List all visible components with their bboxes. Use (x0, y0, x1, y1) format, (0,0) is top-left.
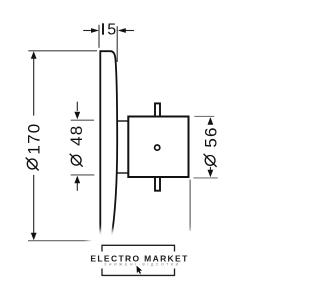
logo frame left edge lower (101, 269, 103, 277)
dimension D56 bottom extension line (194, 177, 218, 179)
dimension D48 bottom arrowhead (74, 176, 80, 184)
svg-text:ЗНИЖЕНІ-ВІДСОТКИ: ЗНИЖЕНІ-ВІДСОТКИ (104, 263, 181, 267)
logo white halo mask (88, 230, 196, 288)
valve body top tab (155, 103, 160, 116)
sleeve top line (117, 120, 129, 122)
sleeve bottom line (117, 172, 129, 174)
dimension 15 left arrowhead (91, 28, 99, 33)
dimension 15 value label digit 1 (102, 23, 104, 34)
svg-text:56: 56 (202, 126, 221, 147)
dimension D48 top arrowhead (74, 112, 80, 120)
valve body U1 (128, 117, 188, 178)
dimension D170 top extension line (28, 50, 97, 52)
dimension D48 bottom extension line (71, 174, 95, 176)
valve body center screw hole (155, 145, 160, 150)
svg-text:5: 5 (107, 22, 116, 39)
dimension D170 line upper segment (33, 57, 35, 116)
dimension D56 bottom arrowhead (208, 170, 214, 178)
dimension D170 top arrowhead (31, 51, 37, 59)
logo frame bottom edge (102, 274, 175, 276)
mouse cursor pointer (137, 266, 143, 274)
escutcheon plate outline (side view) (100, 51, 117, 239)
diameter symbol of D48 (71, 155, 81, 165)
dimension D170 line lower segment (33, 175, 35, 235)
dimension D170 bottom extension line (28, 240, 92, 242)
svg-text:170: 170 (25, 123, 44, 155)
extension line below body right edge (189, 180, 191, 232)
dimension D56 top arrowhead (208, 117, 214, 125)
logo frame top edge (102, 244, 175, 246)
logo frame right edge lower (174, 269, 176, 277)
dimension 15 left extension line (98, 25, 100, 48)
dimension D170 bottom arrowhead (31, 233, 37, 241)
dimension D48 top tail (76, 102, 78, 111)
svg-text:48: 48 (67, 125, 86, 146)
dimension 15 right arrowhead (118, 28, 126, 33)
valve body bottom tab (155, 177, 160, 191)
diameter symbol of D56 (205, 156, 215, 166)
dimension 15 right extension line (116, 26, 118, 62)
diameter symbol of D170 (27, 159, 37, 169)
logo frame right edge upper (174, 245, 176, 252)
dimension D56 top extension line (194, 115, 214, 117)
dimension D56 arrow tail below symbol (209, 167, 211, 170)
dimension D48 top extension line (71, 119, 94, 121)
logo frame left edge upper (101, 245, 103, 252)
dimension D48 bottom tail (76, 183, 78, 191)
dimension 15 left tail (83, 30, 91, 32)
dimension 15 right tail (125, 30, 134, 32)
